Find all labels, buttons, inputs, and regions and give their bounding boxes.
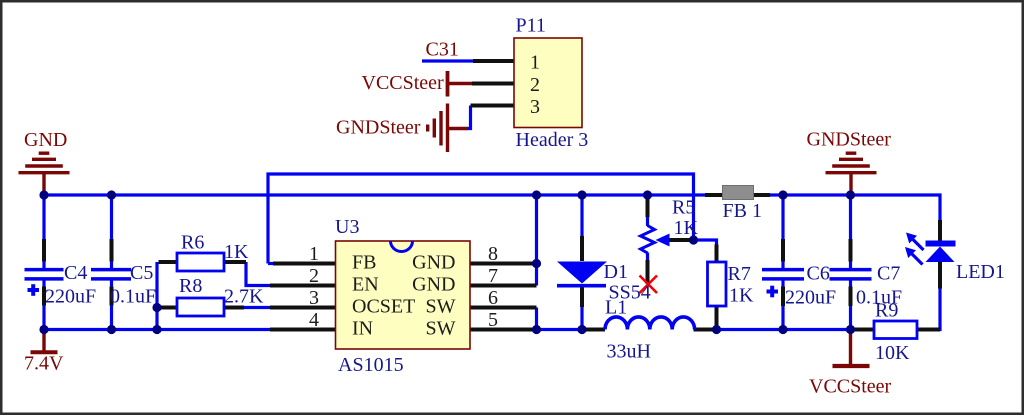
svg-text:7.4V: 7.4V — [24, 353, 64, 375]
svg-text:2: 2 — [309, 265, 319, 287]
svg-text:L1: L1 — [605, 297, 627, 319]
svg-text:R6: R6 — [181, 232, 204, 254]
svg-text:FB 1: FB 1 — [723, 200, 762, 222]
svg-text:C4: C4 — [64, 262, 87, 284]
svg-text:OCSET: OCSET — [352, 296, 415, 318]
svg-text:GND: GND — [24, 129, 67, 151]
svg-text:220uF: 220uF — [45, 286, 96, 308]
svg-text:1: 1 — [530, 52, 540, 74]
svg-text:7: 7 — [488, 265, 498, 287]
svg-text:GND: GND — [412, 252, 455, 274]
svg-text:8: 8 — [488, 243, 498, 265]
svg-text:C5: C5 — [130, 262, 153, 284]
svg-text:1K: 1K — [729, 285, 754, 307]
svg-text:4: 4 — [309, 309, 319, 331]
svg-text:SW: SW — [426, 318, 456, 340]
svg-text:LED1: LED1 — [956, 261, 1005, 283]
svg-text:3: 3 — [309, 287, 319, 309]
svg-text:Header 3: Header 3 — [516, 129, 589, 151]
svg-text:220uF: 220uF — [785, 287, 836, 309]
svg-text:P11: P11 — [516, 15, 546, 37]
svg-text:C7: C7 — [877, 263, 900, 285]
svg-text:2: 2 — [530, 74, 540, 96]
svg-text:GNDSteer: GNDSteer — [807, 129, 892, 151]
svg-text:C6: C6 — [807, 263, 830, 285]
svg-text:U3: U3 — [335, 216, 359, 238]
svg-text:2.7K: 2.7K — [224, 286, 264, 308]
svg-text:3: 3 — [530, 96, 540, 118]
svg-text:R8: R8 — [179, 275, 202, 297]
svg-text:1K: 1K — [224, 241, 249, 263]
svg-text:33uH: 33uH — [607, 341, 651, 363]
svg-text:IN: IN — [352, 318, 373, 340]
svg-text:R5: R5 — [672, 197, 695, 219]
svg-text:0.1uF: 0.1uF — [110, 286, 156, 308]
svg-text:1: 1 — [309, 243, 319, 265]
svg-text:6: 6 — [488, 287, 498, 309]
svg-text:5: 5 — [488, 309, 498, 331]
svg-text:10K: 10K — [875, 342, 910, 364]
svg-text:GND: GND — [412, 274, 455, 296]
svg-text:VCCSteer: VCCSteer — [809, 376, 892, 398]
svg-text:D1: D1 — [604, 261, 628, 283]
svg-text:SW: SW — [426, 296, 456, 318]
svg-text:C31: C31 — [426, 39, 459, 61]
svg-text:AS1015: AS1015 — [338, 354, 404, 376]
svg-text:EN: EN — [352, 274, 379, 296]
svg-text:R9: R9 — [875, 300, 898, 322]
svg-text:1K: 1K — [674, 217, 699, 239]
svg-text:VCCSteer: VCCSteer — [362, 72, 445, 94]
svg-text:FB: FB — [352, 252, 376, 274]
svg-text:GNDSteer: GNDSteer — [336, 117, 421, 139]
svg-text:R7: R7 — [728, 263, 751, 285]
